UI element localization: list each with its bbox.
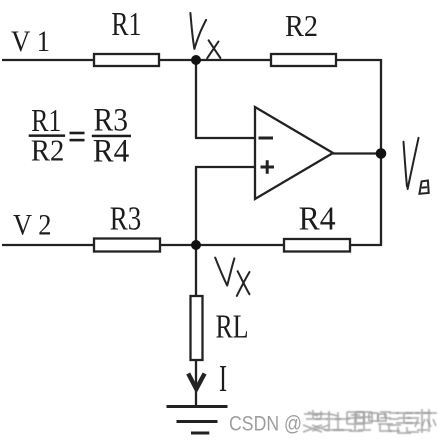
wire node Vx down to inverting input	[195, 60, 197, 138]
equation fraction bar right	[92, 135, 131, 138]
resistor R2	[271, 54, 336, 66]
wire noninverting input	[195, 166, 255, 168]
svg-text:R4: R4	[299, 200, 336, 237]
wire inverting input	[195, 137, 255, 139]
resistor RL	[191, 296, 203, 360]
equation equals sign	[70, 132, 85, 135]
wire RL to ground	[195, 360, 197, 406]
resistor R4	[284, 239, 350, 252]
wire R4 to right rail	[350, 244, 382, 246]
handwritten node label Vx bottom	[215, 258, 234, 286]
node Va output junction dot	[376, 148, 387, 159]
op-amp U1 triangle	[255, 107, 333, 199]
wire V2 input to R3	[2, 244, 94, 246]
wire bottom node down to RL	[195, 245, 197, 297]
wire noninverting input down to bottom node	[195, 167, 197, 245]
svg-text:R1: R1	[111, 6, 141, 43]
svg-text:R4: R4	[93, 134, 130, 170]
watermark Chinese characters approximated	[303, 409, 431, 433]
current arrow I	[188, 374, 204, 390]
svg-text:R2: R2	[285, 8, 318, 43]
svg-text:I: I	[219, 358, 227, 400]
wire op-amp output to node Va	[333, 152, 381, 154]
svg-text:R2: R2	[31, 133, 65, 168]
op-amp plus sign	[261, 160, 275, 174]
wire R2 to right rail	[336, 59, 381, 61]
wire right rail vertical	[380, 59, 382, 246]
equation fraction bar left	[29, 134, 65, 137]
wire R1 to node Vx top	[159, 59, 271, 61]
svg-text:V 1: V 1	[11, 25, 50, 58]
resistor R3	[94, 239, 160, 252]
handwritten node label Va right	[404, 138, 419, 189]
wire R3 to bottom node Vx	[160, 244, 284, 246]
ground	[167, 407, 228, 434]
svg-text:V 2: V 2	[13, 209, 52, 242]
op-amp minus sign	[259, 137, 274, 140]
svg-text:R3: R3	[110, 200, 142, 237]
node Vx top junction dot	[191, 55, 201, 65]
svg-text:RL: RL	[216, 309, 249, 346]
resistor R1	[94, 54, 159, 66]
wire V1 input to R1	[2, 59, 94, 61]
handwritten node label Vx top	[190, 13, 206, 49]
node Vx bottom junction dot	[191, 240, 201, 250]
svg-text:CSDN @: CSDN @	[229, 413, 302, 436]
